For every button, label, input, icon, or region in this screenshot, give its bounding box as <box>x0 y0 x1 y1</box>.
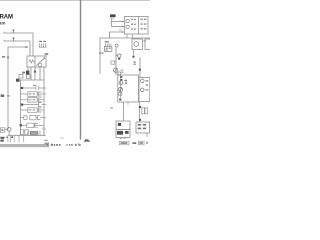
ECU pin circle 2 <box>126 25 129 28</box>
relay K1 box <box>27 56 46 67</box>
box2 circle 1 <box>141 79 145 83</box>
row 4 node <box>21 104 23 106</box>
ECU left text column <box>131 19 136 30</box>
small dot under bus <box>6 137 7 138</box>
wire C left feed with arrow <box>8 47 26 130</box>
ECU drop stubs to feed <box>127 34 133 38</box>
relay switch diagonal <box>37 58 45 65</box>
bus upticks <box>21 131 45 135</box>
sensor stubs <box>134 38 138 39</box>
lamp circle branch <box>116 54 121 57</box>
fuse box on pin wire <box>39 63 42 66</box>
row 5 box text <box>29 109 35 110</box>
ground bus horizontal y80 <box>16 79 44 81</box>
right page bottom label <box>85 139 89 141</box>
bottom module box A <box>116 121 130 130</box>
connector label 4a <box>110 14 116 17</box>
footer page info text <box>47 144 81 146</box>
block dark mark <box>119 99 121 101</box>
wire A top horizontal <box>4 32 33 56</box>
block circle X <box>119 87 123 91</box>
main feed wire y38 <box>100 38 150 74</box>
bottom right wide box <box>136 122 150 133</box>
shaded connector block <box>30 131 38 135</box>
block top circle <box>118 72 121 75</box>
button 1 text <box>121 142 128 144</box>
page shadow band <box>0 144 49 147</box>
arrowhead into relay <box>26 46 29 48</box>
page divider line <box>80 0 81 140</box>
tick below wide box <box>146 133 148 137</box>
ECU right text column <box>140 19 146 30</box>
relay switch arrowhead <box>43 57 45 59</box>
row 3 box text <box>29 99 35 100</box>
row 1 label <box>33 85 36 86</box>
comb label <box>105 41 109 42</box>
svg-text:am: am <box>0 21 5 26</box>
label left of junction block <box>110 107 113 108</box>
drop wire below junction block <box>123 102 125 121</box>
connector comb right page <box>105 43 110 46</box>
stub from sensor box down <box>133 50 135 58</box>
wide box marks <box>138 124 146 129</box>
faint L3 label <box>119 30 122 31</box>
bus component box 2 <box>25 130 29 135</box>
relay pin drop wires <box>28 67 44 136</box>
small marks mid right <box>133 61 135 65</box>
left bus vertical <box>20 80 22 135</box>
faint center-bottom mark <box>60 138 64 139</box>
splice blob at y80 <box>16 79 19 82</box>
fuse circle with slash <box>113 68 117 72</box>
node dot 1 <box>139 106 141 108</box>
label drop ticks <box>111 18 113 22</box>
side box mark <box>144 40 147 41</box>
dark tag under bus <box>11 136 13 138</box>
footer toolbar button 2 <box>138 141 144 145</box>
row 1 wire y88 <box>21 87 45 90</box>
button 2 text <box>140 142 143 144</box>
terminal label on left rail <box>2 56 5 58</box>
block lower tick <box>127 102 129 105</box>
row 5 wire y112 <box>21 108 45 113</box>
relay label <box>45 53 49 55</box>
block circle 1 <box>119 81 123 85</box>
module B text <box>117 131 129 135</box>
battery box marks <box>1 129 4 130</box>
bottom bus line <box>8 134 46 136</box>
footer dot left <box>78 143 79 145</box>
connector blob C4 <box>26 71 29 75</box>
row 1 node <box>21 87 23 89</box>
terminal label a0 mid rail <box>1 94 5 97</box>
row 2 box text <box>29 93 35 94</box>
component box below blob <box>26 75 30 79</box>
junction dot on wire x35 <box>34 71 36 73</box>
right harness vertical <box>139 57 141 78</box>
inline component box <box>111 61 115 64</box>
comb connector box <box>104 46 111 51</box>
side box at page edge <box>145 39 151 50</box>
branch top circle <box>115 44 118 47</box>
tick on left rail <box>7 57 9 58</box>
battery box left <box>0 128 4 132</box>
connector label C4 <box>22 72 25 74</box>
comb box marks <box>106 48 111 51</box>
tick on rail at a0 <box>7 95 10 96</box>
bottom module box B <box>116 130 130 138</box>
row 7 wire y124.5 <box>21 123 45 127</box>
harness bracket wires into ECU <box>110 22 125 39</box>
right lower harness vertical <box>139 102 141 122</box>
box2 text marks <box>146 80 149 90</box>
under-bus stubs <box>8 136 24 143</box>
node dot on stub <box>133 56 135 58</box>
row 7 node <box>20 124 22 126</box>
node dot 2 <box>139 119 141 121</box>
left page number dash <box>44 139 48 142</box>
mid vertical harness wire <box>115 48 117 75</box>
row7 side label <box>42 128 45 130</box>
row 6 wire y118 <box>21 116 45 120</box>
row 4 wire y106 <box>21 103 45 107</box>
wire B second horizontal <box>4 40 30 56</box>
twin component boxes <box>142 108 148 114</box>
comb pin labels <box>39 41 46 42</box>
top window border <box>0 0 150 1</box>
under-module faint marks <box>120 138 126 139</box>
footer tick right <box>146 142 147 144</box>
band end blob <box>45 143 50 145</box>
node dot right harness <box>139 69 141 71</box>
footer mid text <box>132 142 136 144</box>
row 2 wire y94 <box>21 92 45 97</box>
bus component box 1 <box>20 130 23 135</box>
connector tick on wire A <box>13 30 14 34</box>
row right stubs <box>44 88 46 118</box>
block inner wire <box>120 75 122 98</box>
junction block tall box <box>118 75 139 102</box>
connector tick on wire B <box>13 38 14 42</box>
ECU pin circle 1 <box>126 19 129 22</box>
motor M circle bottom left <box>7 127 11 131</box>
motor feed stub <box>8 131 10 135</box>
junction dot <box>118 58 120 60</box>
block terminal marks A <box>120 76 122 80</box>
relay box 2 right edge <box>139 78 150 102</box>
connector comb above relay <box>39 43 47 47</box>
ECU box U1 <box>125 17 149 35</box>
small component box left <box>19 74 23 78</box>
block small box <box>118 93 121 96</box>
module A dark mark <box>118 123 121 126</box>
sensor box with circle <box>132 39 143 50</box>
box2 circle 2 <box>141 88 145 92</box>
wire arrowheads <box>122 21 124 33</box>
footer toolbar button 1 <box>119 141 129 144</box>
label below comb <box>99 52 103 53</box>
page code text SB <box>0 137 4 142</box>
fuse side labels <box>121 70 124 73</box>
footer marks near divider <box>84 141 90 142</box>
row 3 wire y100 <box>21 98 45 103</box>
relay coil zigzag <box>29 60 35 63</box>
block terminal marks B <box>125 80 127 84</box>
sensor circle <box>134 42 139 47</box>
